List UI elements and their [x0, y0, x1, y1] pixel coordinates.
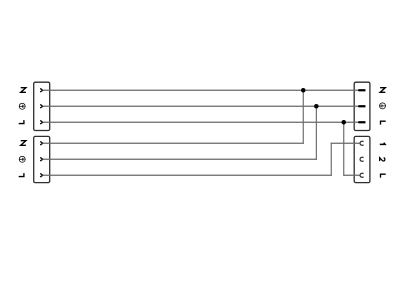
wire riser X2:L to X4:1	[330, 143, 332, 176]
wire into X4:L	[343, 174, 359, 176]
wire N: X1:N to X3:N	[43, 89, 359, 91]
wire into X4:1	[331, 142, 360, 144]
wire N2: X2:N to node N riser	[43, 142, 304, 144]
connector X4 (bottom-right, 3-pole socket)	[354, 136, 370, 182]
label X1 pin N	[21, 88, 26, 93]
label X3 pin PE (earth symbol)	[380, 103, 386, 109]
terminal bar X3:PE	[358, 105, 366, 107]
socket contact X4:L	[360, 173, 363, 177]
junction node N	[301, 88, 306, 93]
wire PE: X1:PE to X3:PE	[43, 105, 359, 107]
socket contact X4:1	[360, 141, 363, 145]
wire riser node N	[302, 90, 304, 144]
wire drop node L to X4:L	[343, 122, 345, 176]
connector X3 (top-right, 3-pole terminal block)	[354, 82, 370, 130]
label X1 pin PE (earth symbol)	[19, 103, 25, 109]
junction node L	[342, 120, 347, 125]
wire L: X1:L to X3:L	[43, 121, 359, 123]
pin contact X1:L (plug chevron)	[40, 120, 43, 124]
label X4 pin L	[381, 174, 386, 177]
pin contact X2:L (plug chevron)	[40, 173, 43, 177]
label X2 pin PE (earth symbol)	[19, 156, 25, 162]
label X2 pin N	[21, 141, 26, 146]
label X2 pin L	[19, 173, 24, 176]
label X3 pin N	[380, 88, 385, 93]
wire L2: X2:L toward X4:1	[43, 174, 332, 176]
label X3 pin L	[381, 121, 386, 124]
wire PE2: X2:PE to node PE riser	[43, 158, 317, 160]
junction node PE	[314, 104, 319, 109]
connector X2 (bottom-left, 3-pole plug)	[34, 136, 50, 182]
terminal bar X3:N	[358, 89, 366, 91]
label X4 pin 1	[380, 143, 385, 145]
connector X1 (top-left, 3-pole plug)	[34, 82, 50, 130]
pin contact X1:PE (plug chevron)	[40, 104, 43, 108]
pin contact X2:PE (plug chevron)	[40, 157, 43, 161]
wire riser node PE	[315, 106, 317, 160]
label X1 pin L	[19, 120, 24, 123]
label X4 pin 2	[380, 158, 385, 161]
pin contact X1:N (plug chevron)	[40, 88, 43, 92]
terminal bar X3:L	[358, 121, 366, 123]
pin contact X2:N (plug chevron)	[40, 141, 43, 145]
socket contact X4:2	[360, 157, 363, 161]
